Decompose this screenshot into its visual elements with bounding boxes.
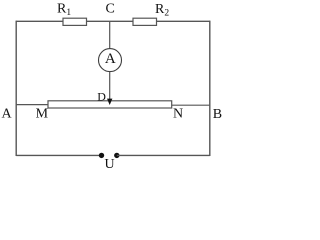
- wire: bottom-left segment to left terminal: [16, 154, 101, 156]
- rheostat MN (slide-wire resistor body): [48, 101, 172, 108]
- label D: [97, 89, 106, 103]
- svg-text:N: N: [173, 107, 183, 122]
- wire: bottom-right segment from right terminal: [117, 154, 210, 156]
- label R2: [155, 2, 169, 19]
- wire: N end of rheostat to node B: [172, 104, 210, 106]
- label B (right node): [213, 107, 222, 122]
- wire: top-left segment from left rail to R1: [16, 20, 64, 22]
- svg-text:C: C: [106, 2, 115, 17]
- wire: node A to M end of rheostat: [16, 104, 48, 106]
- label U (source): [105, 157, 115, 172]
- node C label: [106, 2, 115, 17]
- wire: node C down to ammeter: [109, 21, 111, 48]
- label N: [173, 107, 183, 122]
- wire: top segment between R1 and R2 (through node C): [85, 20, 134, 22]
- label A (left node): [2, 106, 13, 121]
- svg-text:B: B: [213, 107, 222, 122]
- svg-text:R1: R1: [57, 2, 71, 19]
- label R1: [57, 2, 71, 19]
- label M: [36, 106, 49, 121]
- ammeter A: [99, 49, 122, 72]
- svg-text:U: U: [105, 157, 115, 171]
- svg-text:D: D: [97, 89, 106, 103]
- svg-text:M: M: [36, 106, 49, 121]
- svg-text:A: A: [105, 51, 116, 67]
- wire: right vertical rail: [209, 21, 211, 156]
- wire: ammeter down to slider arrow: [109, 72, 111, 100]
- terminal dot left: [99, 153, 104, 158]
- terminal dot right: [114, 153, 119, 158]
- wire: left vertical rail: [15, 21, 17, 156]
- resistor R1: [63, 18, 87, 25]
- wire: top-right segment from R2 to right rail: [155, 20, 210, 22]
- resistor R2: [133, 18, 157, 25]
- slider arrow at D (pointer onto rheostat): [107, 99, 112, 105]
- svg-text:A: A: [2, 106, 13, 121]
- svg-text:R2: R2: [155, 2, 169, 19]
